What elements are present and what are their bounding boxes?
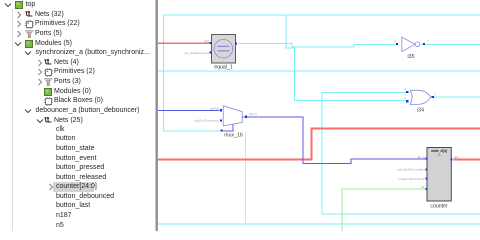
schematic canvas: [158, 0, 480, 231]
pin text mux A: [210, 106, 219, 110]
label i35: [408, 54, 415, 60]
svg-text:q[n]: q[n]: [454, 155, 459, 159]
pin text equal_1 in2: [184, 51, 209, 55]
selection highlight counter[24:0]: [53, 182, 94, 192]
wire: top cyan net H1: [164, 15, 480, 131]
wire: blue mux input A: [158, 109, 220, 111]
pin text counter p2: [397, 168, 424, 172]
pin text OR in2: [404, 96, 406, 100]
wire: blue mux output to counter: [247, 117, 426, 164]
component OR gate i34: [410, 90, 433, 104]
pin inverter out: [423, 43, 425, 45]
svg-text:new[,h:1](2:9-0:0:0): new[,h:1](2:9-0:0:0): [398, 177, 424, 181]
wire: cyan select branch to mux: [164, 130, 221, 132]
wire: red net lower-left with vertical jog to right edge: [158, 129, 480, 160]
svg-text:q[n]: q[n]: [204, 39, 209, 43]
svg-text:clk: clk: [421, 185, 425, 189]
component mux_16 trapezoid: [223, 106, 245, 126]
pin text counter q: [454, 155, 459, 159]
pin text counter d: [417, 155, 425, 159]
pin text counter p3: [398, 177, 424, 181]
pin mux select: [221, 130, 223, 132]
svg-text:syn_deb[24:4xxxx]: syn_deb[24:4xxxx]: [184, 51, 209, 55]
rows: [0, 0, 156, 10]
pin text inverter in: [394, 39, 396, 43]
wire: red net into equal_1: [158, 42, 210, 44]
svg-text:q[1:1]: q[1:1]: [249, 112, 257, 116]
label equal_1: [214, 65, 233, 71]
svg-text:adj_f[3:2]f-b-scnt[xx]: adj_f[3:2]f-b-scnt[xx]: [397, 168, 424, 172]
wire: blue mux select stub: [223, 124, 234, 131]
svg-text:n[24:0]: n[24:0]: [210, 106, 219, 110]
pin equal_1 in2: [210, 51, 212, 53]
pin mux in A: [220, 109, 222, 111]
wire: red counter output: [454, 159, 480, 161]
pin text OR out: [435, 92, 437, 96]
pin counter q: [450, 158, 452, 160]
svg-text:y: y: [435, 92, 437, 96]
label mux_16: [224, 133, 243, 139]
svg-text:equal_1: equal_1: [214, 65, 233, 71]
wire: green net to counter: [342, 189, 426, 231]
label counter: [430, 204, 448, 210]
pin counter clk: [425, 188, 427, 190]
pin counter p3: [425, 178, 427, 180]
svg-text:counter: counter: [430, 204, 448, 210]
pin text mux B: [194, 119, 219, 123]
pin OR in2: [406, 100, 408, 102]
left tree panel: [1, 0, 2, 231]
svg-text:y: y: [427, 39, 429, 43]
pin equal_1 in1: [210, 42, 212, 44]
wire: bottom cyan y=224: [158, 223, 480, 225]
component equal_1 box: [212, 35, 236, 64]
pin counter p2: [425, 168, 427, 170]
pin mux out: [245, 116, 247, 118]
wire: equal output to inverter (cyan with jog): [239, 44, 397, 47]
pin counter d: [425, 158, 427, 160]
pin text counter clk: [421, 185, 425, 189]
wire: inverter output cyan: [425, 43, 480, 45]
wire: OR gate output cyan: [434, 96, 480, 98]
label i34: [417, 108, 424, 114]
wire: cyan vertical x=322 to OR input1 and bottom line y=214: [322, 92, 480, 214]
svg-text:mux_16: mux_16: [224, 133, 243, 139]
pin text inverter out: [427, 39, 429, 43]
pin OR in1: [406, 91, 408, 93]
component counter block: [427, 148, 451, 202]
svg-text:a: a: [394, 39, 396, 43]
svg-text:q[n:n]: q[n:n]: [417, 155, 425, 159]
block title text: [430, 149, 447, 153]
svg-text:b: b: [404, 96, 406, 100]
component inverter i35: [402, 37, 423, 51]
pin inverter in: [396, 43, 398, 45]
pin equal_1 out: [235, 42, 237, 44]
svg-text:i34: i34: [417, 108, 424, 114]
pin OR out: [432, 96, 434, 98]
svg-text:i35: i35: [408, 54, 415, 60]
pin text equal_1 in1: [204, 39, 209, 43]
wire: faint cyan vertical x=245: [245, 132, 247, 225]
svg-text:n[p13-p7xxxxxxxx]: n[p13-p7xxxxxxxx]: [194, 119, 219, 123]
wire: cyan vertical from H1 to OR input2: [286, 15, 407, 101]
pin text OR in1: [404, 87, 406, 91]
tree guide line: [12, 9, 13, 231]
pin text mux out: [249, 112, 257, 116]
svg-text:+1: +1: [437, 152, 441, 156]
wire: cyan horizontal y=71: [158, 70, 480, 72]
pin mux in B: [220, 119, 222, 121]
svg-text:a: a: [404, 87, 406, 91]
splitter: [155, 0, 156, 231]
